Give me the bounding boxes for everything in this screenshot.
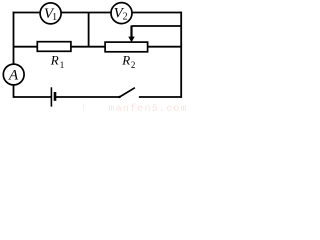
rheostat wiper arrow [128,26,134,43]
wire: left vertical rail [13,12,15,98]
ammeter A [3,64,24,85]
resistor R2 (rheostat body) [105,42,148,52]
svg-text:R: R [121,53,130,68]
svg-text:R: R [50,53,59,68]
wire: bottom left segment (rail to battery) [14,96,52,98]
wire: bottom middle segment (battery to switch) [56,96,120,98]
wire: top horizontal rail [13,12,182,14]
wire: bottom right segment (switch to right rail) [139,96,182,98]
resistor R1 [37,42,71,52]
switch (open blade) [119,88,135,98]
svg-text:1: 1 [60,60,65,70]
wire: right vertical rail [180,12,182,98]
voltmeter V2 [111,3,132,24]
svg-text:1: 1 [52,12,57,23]
wire: junction vertical between R1 and R2 up to top rail [88,13,90,47]
battery cell: long positive plate [50,87,52,106]
label R1 [50,53,65,71]
svg-text:2: 2 [123,12,128,23]
battery cell: short negative plate [54,92,57,101]
svg-text:2: 2 [131,60,136,70]
svg-text:manfen5.com: manfen5.com [109,103,188,115]
wire: rheostat wiper to right rail [132,25,182,27]
svg-text:A: A [8,68,19,84]
switch contact dot [118,96,120,98]
label R2 [121,53,135,71]
wire: middle horizontal (R1-R2 branch) [14,46,182,48]
voltmeter V1 [40,3,61,24]
